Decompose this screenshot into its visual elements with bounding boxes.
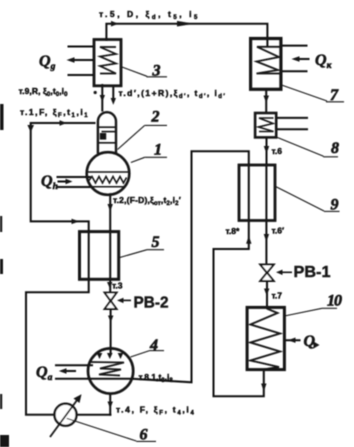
svg-text:т.6: т.6	[272, 146, 283, 156]
svg-text:РВ-1: РВ-1	[294, 264, 331, 281]
svg-text:РВ-2: РВ-2	[134, 295, 169, 312]
svg-text:1: 1	[154, 142, 162, 159]
svg-text:2: 2	[151, 109, 160, 126]
svg-text:3: 3	[152, 63, 161, 80]
svg-text:4: 4	[149, 337, 158, 354]
svg-text:Q: Q	[304, 333, 316, 350]
svg-text:10: 10	[327, 293, 342, 310]
svg-text:6: 6	[140, 427, 148, 444]
svg-text:8: 8	[331, 140, 339, 157]
svg-text:9: 9	[331, 197, 339, 214]
svg-text:7: 7	[330, 87, 339, 104]
svg-text:т.3: т.3	[112, 281, 123, 291]
svg-text:5: 5	[152, 234, 160, 251]
svg-text:т.8*: т.8*	[226, 226, 241, 236]
svg-text:т.6′: т.6′	[272, 226, 285, 236]
svg-text:т.7: т.7	[272, 291, 283, 301]
